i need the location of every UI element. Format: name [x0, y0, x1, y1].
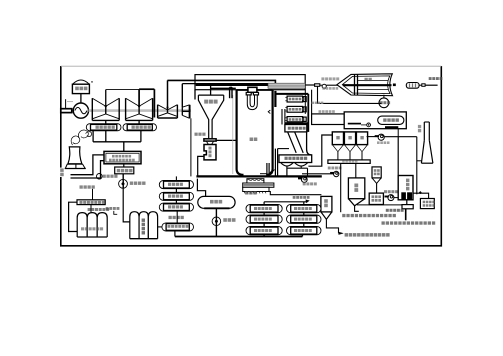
ground line: [196, 175, 321, 177]
slurry bottom line: [357, 204, 402, 206]
coal gallery left drop: [194, 90, 196, 100]
coal yard bottom line: [318, 86, 382, 103]
hp heater B1: [287, 204, 322, 212]
reheater box: [285, 106, 306, 112]
chimney: [421, 122, 433, 163]
condenser capsule 2: [123, 124, 157, 131]
demin water tanks: [77, 213, 107, 237]
condensate pump: [119, 179, 146, 188]
boiler label: [250, 138, 258, 142]
oil pump: [361, 123, 371, 127]
belt conveyor bar: [328, 160, 370, 164]
conveyor belt dark line: [196, 84, 268, 86]
coal bunker 3: [356, 132, 367, 160]
transmission mast: [66, 99, 73, 109]
heat exchanger label: [293, 196, 310, 199]
chimney label: [418, 125, 421, 132]
boiler air duct gray: [232, 95, 234, 174]
mill exhaust fan: [375, 134, 390, 144]
bypass line left of tanks: [69, 202, 78, 231]
belt pulley circle: [320, 84, 327, 88]
slag silo: [321, 196, 332, 219]
transfer house box: [312, 114, 345, 125]
oil storage tank: [378, 116, 404, 124]
rail coupling square: [419, 84, 438, 87]
demin water tanks label: [88, 208, 110, 211]
industrial water pump label: [80, 185, 95, 188]
coal drop to bunker: [211, 85, 236, 95]
HP cone section: [182, 105, 190, 119]
coal yard center beam: [343, 84, 392, 86]
HP turbine 3: [158, 105, 178, 118]
air preheater: [285, 125, 307, 132]
hp heater A2: [246, 215, 282, 223]
diagram frame: [61, 66, 442, 246]
flue duct to precipitator: [288, 132, 304, 153]
chem water treatment box: [77, 200, 105, 205]
rail line to crusher: [305, 84, 314, 86]
condenser capsule 1: [86, 124, 121, 131]
ash flow arrow: [269, 170, 274, 175]
dot near exciter: [91, 81, 92, 82]
truck transport label 1: [342, 214, 396, 217]
oil unloading trough: [348, 124, 399, 129]
coal yard banner outer: [337, 74, 393, 96]
circ water line upper: [71, 155, 104, 175]
turbine shaft: [89, 109, 192, 112]
gypsum label: [386, 209, 404, 212]
absorber inlet drop: [397, 137, 399, 176]
steam riser turbine3: [167, 80, 169, 110]
slurry tank: [369, 193, 383, 204]
electrostatic precipitator: [279, 155, 312, 163]
waste water box: [413, 191, 435, 208]
rail wagon: [406, 83, 419, 89]
boiler rear wall segment: [274, 91, 276, 107]
lp heater 5: [159, 203, 193, 211]
hx side gray label: [312, 102, 324, 104]
bunker to fan line: [367, 136, 379, 138]
slag remover label: [245, 191, 257, 194]
coal yard label: [365, 78, 372, 81]
induced draft fan: [328, 167, 342, 177]
pulverized coal pipe: [216, 139, 237, 141]
mill outlet line: [198, 156, 204, 176]
rail transport label: [429, 77, 443, 80]
lp heater link stubs: [175, 176, 177, 203]
turbine2 exhaust stub: [138, 120, 140, 123]
exciter dome arc: [73, 80, 90, 84]
coal bunker 2: [344, 132, 355, 160]
gypsum box under absorber: [402, 200, 413, 209]
hp heater B2: [287, 215, 322, 223]
gland steam heater: [162, 223, 194, 231]
boiler furnace: [237, 90, 273, 175]
hp heater A stubs: [263, 202, 265, 227]
hp heater A1: [246, 204, 282, 212]
downcomer bars: [230, 87, 232, 98]
belt label gray: [322, 87, 338, 90]
cooling tower steam swirls: [71, 130, 91, 145]
feedpump discharge: [215, 226, 217, 237]
gypsum box outlet: [405, 209, 407, 221]
lp heater 4 label: [169, 211, 184, 223]
hp heater B stubs: [303, 202, 305, 227]
coal mill: [204, 145, 216, 160]
absorber tower: [398, 176, 413, 200]
turbine1 exhaust stub: [105, 120, 107, 123]
economizer box: [285, 117, 306, 122]
hp heater B3: [287, 226, 322, 234]
turbine2 top pipe: [139, 89, 154, 117]
primary air fan: [298, 177, 317, 186]
LP turbine 1: [92, 98, 119, 120]
coal yard inner rect lines: [358, 81, 389, 90]
circ water line lower: [71, 161, 104, 178]
esp to id fan duct: [302, 173, 334, 175]
coal bunker 1: [332, 132, 343, 160]
feedwater bottom bus: [175, 235, 303, 237]
hp heater A3: [246, 226, 282, 234]
boiler house outline: [195, 75, 305, 90]
bunker to esp duct: [308, 135, 332, 166]
feed water pump: [212, 217, 235, 226]
IP turbine 2: [126, 98, 153, 120]
steam drum: [246, 87, 258, 109]
slag conveyor striped box: [243, 183, 274, 187]
steam riser turbine2: [138, 89, 140, 106]
gas duct beside boiler: [275, 149, 289, 177]
generator G1: [73, 103, 88, 118]
lp heater 6: [159, 192, 193, 200]
air duct in furnace bottom: [260, 163, 269, 176]
truck line from conveyor: [340, 163, 342, 212]
chem box to tanks pipe: [90, 205, 92, 213]
flue run from mill fan: [385, 129, 417, 137]
hotwell links: [122, 164, 125, 188]
lp heater 7: [159, 181, 193, 189]
deaerator to feedpump: [215, 208, 217, 225]
hx section frame: [276, 94, 311, 155]
coal feeder: [195, 133, 217, 145]
transfer house drop: [305, 90, 311, 114]
makeup water label: [59, 168, 65, 177]
wire exciter to generator: [80, 94, 82, 106]
chimney bypass drop: [417, 137, 422, 195]
demin pump label: [106, 207, 120, 214]
condensate tank small box: [115, 167, 134, 174]
slag silo outlet: [326, 219, 343, 234]
steam riser cone: [181, 84, 183, 108]
gland heater drop: [174, 231, 176, 237]
coal crusher: [379, 95, 390, 108]
oxidation fan: [384, 190, 398, 200]
condensate pump discharge: [123, 180, 130, 222]
tank to gland heater line: [158, 226, 162, 228]
deaerator: [198, 196, 235, 208]
fan to absorber: [394, 197, 398, 199]
condenser drop pipes: [93, 131, 141, 152]
reheat arrow in furnace: [268, 110, 270, 113]
main steam line B: [167, 80, 275, 88]
thick stub right of banner: [393, 84, 396, 87]
coal yard posts: [355, 75, 358, 96]
superheater box: [285, 96, 306, 102]
limestone silo: [372, 167, 381, 193]
condensate polishing box: [104, 151, 141, 163]
conveyor gallery gray band: [268, 83, 305, 88]
ash silo feed stub: [355, 163, 357, 178]
esp ash stubs: [287, 166, 308, 176]
raw coal bunker: [198, 95, 223, 139]
esp hoppers: [281, 163, 308, 167]
slag line to slag silo: [269, 192, 321, 195]
deaerator inlet line: [197, 179, 205, 197]
crossover pipe thin: [106, 89, 139, 91]
coal yard banner inner: [342, 76, 390, 94]
condensate storage tanks: [130, 212, 158, 239]
air preheater duct sides: [282, 109, 285, 125]
exciter box: [72, 84, 89, 93]
slag conveyor lower box: [243, 187, 269, 193]
circulating pump: [97, 174, 118, 180]
truck transport label 2: [382, 221, 436, 224]
cone exhaust drop: [190, 118, 192, 176]
ash silo: [348, 178, 364, 211]
cooling tower: [65, 147, 86, 169]
slag water trough: [247, 179, 264, 183]
feedwater top line with arrow: [264, 200, 309, 203]
steam riser turbine1: [105, 90, 107, 107]
truck transport label 3: [345, 233, 390, 237]
steam line C long: [182, 83, 270, 85]
water pipe to chem plant: [92, 189, 94, 200]
oil tank house: [344, 112, 406, 129]
line pulley to coal yard: [326, 84, 338, 86]
transfer label gray: [319, 110, 335, 113]
transfer box on line: [315, 84, 320, 87]
grid connection box: [61, 109, 72, 113]
coal yard label gray: [321, 77, 339, 80]
